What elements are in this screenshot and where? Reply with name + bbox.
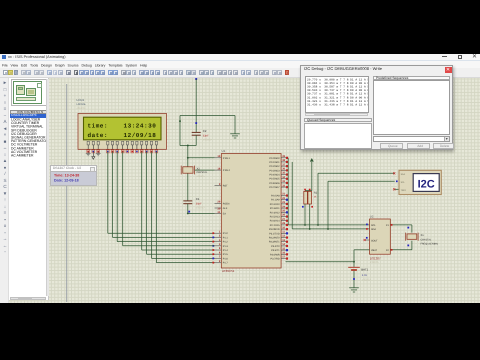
svg-text:SDA: SDA [401, 173, 406, 176]
svg-text:CRYSTAL: CRYSTAL [421, 238, 432, 241]
svg-text:<TEXT>: <TEXT> [196, 207, 206, 210]
svg-text:P0.3/AD3: P0.3/AD3 [269, 169, 280, 172]
svg-text:LCD1: LCD1 [77, 98, 85, 102]
svg-text:P1.6: P1.6 [223, 257, 229, 260]
svg-text:P0.2/AD2: P0.2/AD2 [269, 165, 280, 168]
svg-text:1k: 1k [314, 196, 317, 199]
svg-text:P2.4/A12: P2.4/A12 [270, 211, 281, 214]
svg-text:P1.5: P1.5 [223, 253, 229, 256]
svg-text:time:: time: [88, 122, 109, 129]
svg-text:<TEXT>: <TEXT> [77, 107, 87, 110]
svg-text:RST: RST [223, 185, 228, 188]
svg-text:13:24:30: 13:24:30 [124, 122, 157, 129]
svg-text:<TEXT>: <TEXT> [362, 278, 372, 281]
svg-text:12/09/18: 12/09/18 [124, 132, 157, 139]
svg-text:P1.4: P1.4 [223, 249, 229, 252]
svg-text:3.6V: 3.6V [362, 274, 368, 277]
svg-text:30pF: 30pF [196, 203, 202, 206]
svg-text:P0.1/AD1: P0.1/AD1 [269, 161, 280, 164]
svg-text:P3.7/RD: P3.7/RD [271, 258, 280, 261]
svg-text:DS1307: DS1307 [370, 256, 381, 260]
svg-text:33pF: 33pF [203, 135, 209, 138]
svg-text:C1: C1 [196, 197, 200, 201]
svg-text:P1.2: P1.2 [223, 241, 229, 244]
svg-text:P2.7/A15: P2.7/A15 [270, 224, 281, 227]
svg-text:P1.3: P1.3 [223, 245, 229, 248]
svg-text:P1.7: P1.7 [223, 262, 229, 265]
svg-text:P2.3/A11: P2.3/A11 [270, 207, 280, 210]
svg-text:P1.0: P1.0 [223, 232, 229, 235]
svg-text:P0.0/AD0: P0.0/AD0 [269, 157, 280, 160]
svg-text:P2.0/A8: P2.0/A8 [271, 195, 280, 198]
svg-text:CRYSTAL: CRYSTAL [197, 171, 208, 174]
svg-text:EA: EA [223, 212, 227, 215]
svg-text:P2.2/A10: P2.2/A10 [270, 203, 281, 206]
svg-text:P3.4/T0: P3.4/T0 [271, 245, 280, 248]
svg-text:XTAL2: XTAL2 [223, 169, 231, 172]
svg-text:SDA: SDA [371, 228, 376, 231]
svg-text:TRIG: TRIG [401, 189, 407, 192]
svg-text:R1: R1 [314, 192, 318, 195]
svg-text:P3.0/RXD: P3.0/RXD [269, 228, 280, 231]
svg-text:<TEXT>: <TEXT> [197, 175, 206, 178]
svg-text:I2C: I2C [418, 178, 435, 190]
svg-text:SOUT: SOUT [371, 240, 378, 243]
svg-text:P0.4/AD4: P0.4/AD4 [269, 174, 280, 177]
svg-text:U1: U1 [222, 149, 226, 153]
svg-text:VBAT: VBAT [371, 249, 378, 252]
svg-text:P3.6/WR: P3.6/WR [270, 253, 280, 256]
svg-text:PSEN: PSEN [223, 202, 230, 205]
svg-text:P2.5/A13: P2.5/A13 [270, 216, 281, 219]
svg-text:XTAL1: XTAL1 [223, 157, 231, 160]
svg-text:C2: C2 [203, 129, 207, 133]
svg-text:U2: U2 [370, 215, 374, 219]
svg-text:P1.1: P1.1 [223, 236, 229, 239]
svg-text:BAT1: BAT1 [361, 268, 368, 272]
svg-text:P0.7/AD7: P0.7/AD7 [269, 186, 280, 189]
svg-text:X1: X1 [421, 234, 425, 237]
svg-text:FREQ=32768Hz: FREQ=32768Hz [421, 242, 439, 245]
svg-text:P0.5/AD5: P0.5/AD5 [269, 178, 280, 181]
svg-text:ALE: ALE [223, 207, 228, 210]
svg-text:AT89C51: AT89C51 [222, 269, 235, 273]
svg-text:date:: date: [88, 132, 109, 139]
svg-text:LM016L: LM016L [77, 103, 87, 106]
svg-text:P2.1/A9: P2.1/A9 [271, 199, 280, 202]
svg-text:<TEXT>: <TEXT> [370, 261, 380, 264]
svg-text:P2.6/A14: P2.6/A14 [270, 220, 281, 223]
svg-text:P0.6/AD6: P0.6/AD6 [269, 182, 280, 185]
svg-text:P3.5/T1: P3.5/T1 [271, 249, 280, 252]
svg-text:P3.3/INT1: P3.3/INT1 [269, 241, 280, 244]
svg-text:P3.1/TXD: P3.1/TXD [269, 232, 280, 235]
svg-text:P3.2/INT0: P3.2/INT0 [269, 237, 280, 240]
svg-text:<TEXT>: <TEXT> [203, 139, 213, 142]
svg-text:SCL: SCL [371, 224, 376, 227]
